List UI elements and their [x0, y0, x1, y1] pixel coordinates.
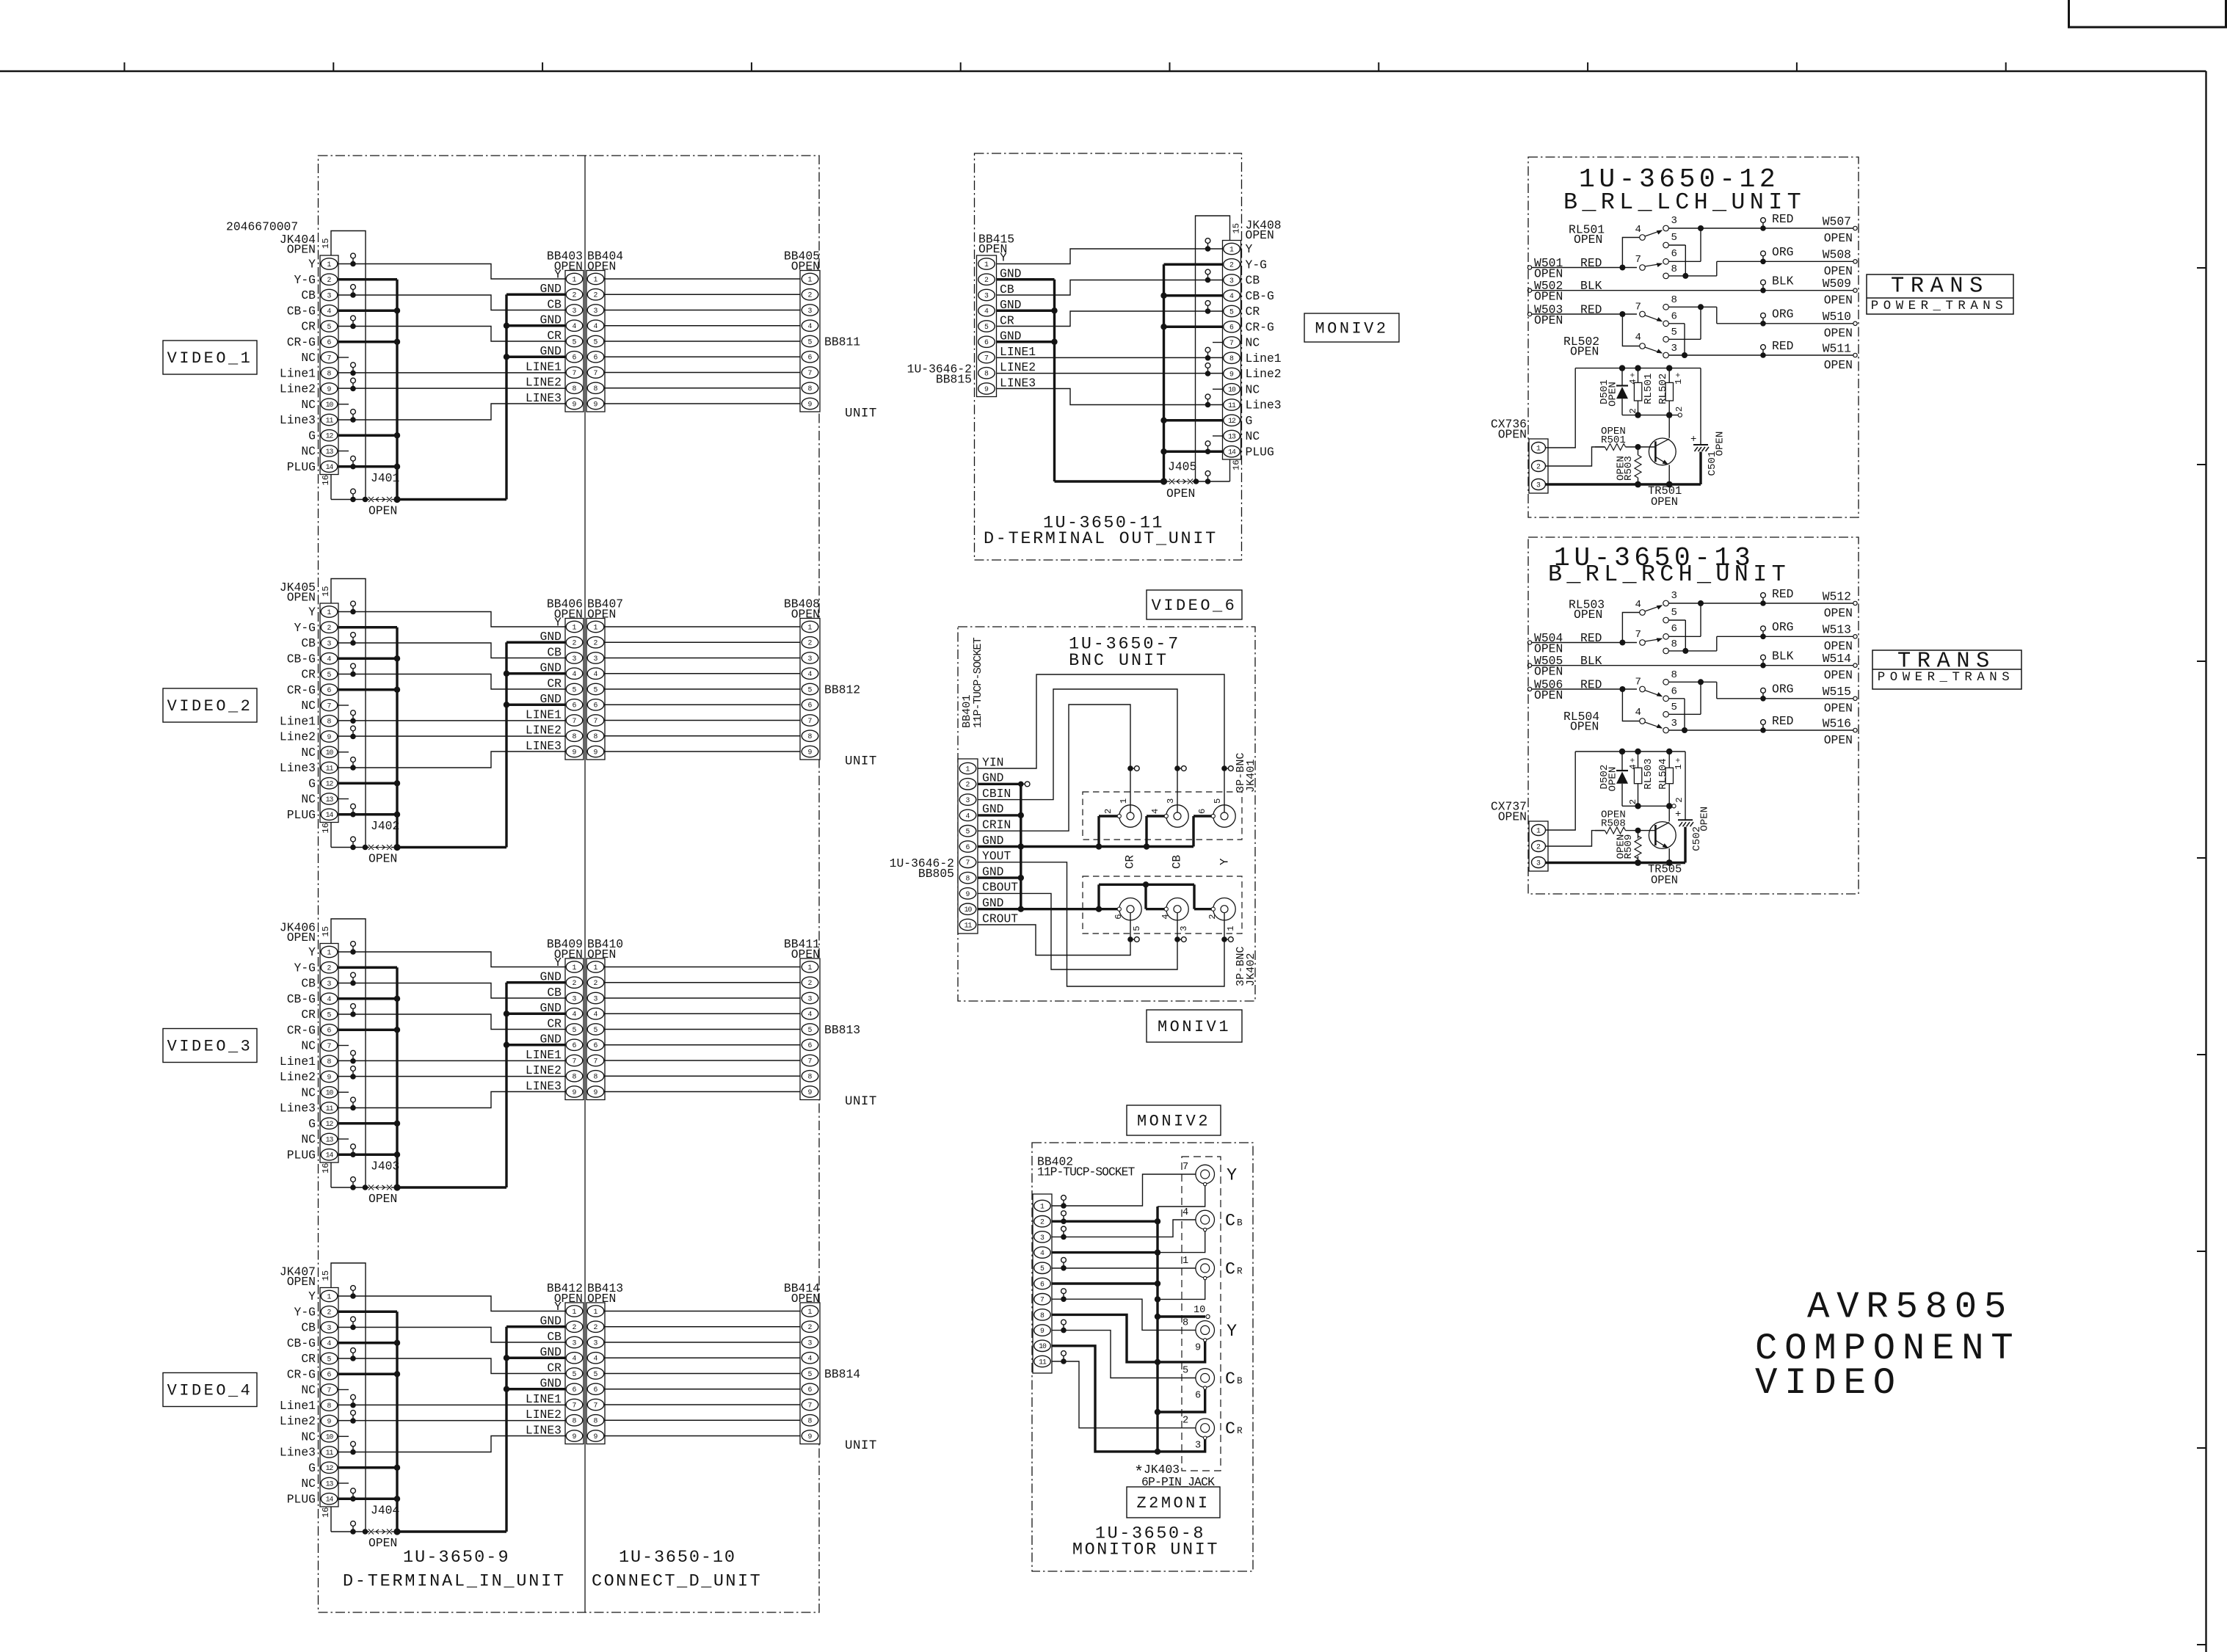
svg-text:VIDEO_2: VIDEO_2 [167, 697, 253, 716]
svg-text:8: 8 [808, 385, 813, 393]
unit outline 1U-3650-13 (dash-dot box) [1528, 537, 1859, 894]
svg-text:3: 3 [1671, 718, 1677, 729]
wire JK408 pin 13 NC stub [1213, 435, 1223, 437]
wire BB410 pin 5 to BB411 pin 5 [605, 1029, 800, 1030]
svg-text:2: 2 [1040, 1218, 1045, 1226]
svg-text:6: 6 [1197, 809, 1207, 814]
label UNIT destination [845, 1438, 877, 1453]
label drawing title AVR5805 [1807, 1287, 2013, 1329]
svg-text:RL502: RL502 [1657, 374, 1669, 404]
wire CB net JK404 pin 3 to BB403 pin 3 [338, 285, 565, 310]
wire jack CR1 shield to bus [1158, 1279, 1205, 1299]
connector BB411 (ribbon header 9P) [784, 937, 820, 1100]
svg-text:8: 8 [573, 1417, 577, 1425]
node Z2MONI [1127, 1487, 1220, 1518]
svg-text:Line2: Line2 [1246, 367, 1282, 381]
title block box top right [2069, 0, 2226, 27]
svg-text:2: 2 [573, 1323, 577, 1331]
svg-text:OPEN: OPEN [1574, 233, 1602, 247]
svg-text:POWER_TRANS: POWER_TRANS [1871, 299, 2008, 313]
svg-text:LINE1: LINE1 [526, 707, 562, 721]
svg-text:7: 7 [594, 1057, 598, 1065]
svg-text:5: 5 [573, 1370, 577, 1378]
svg-text:7: 7 [327, 354, 332, 362]
wire RL501 pin 5 to pin 8 [1668, 245, 1685, 276]
wire W515 output from RL504 pin 8 [1668, 679, 1857, 715]
RCA jack JK403 pin 1 (CR) [1182, 1256, 1243, 1280]
svg-text:ORG: ORG [1772, 683, 1793, 696]
svg-text:Y-G: Y-G [294, 1305, 316, 1319]
wire BB404 pin 1 to BB405 pin 1 [605, 278, 800, 280]
relay coil RL503 pins 4/2 [1628, 752, 1654, 806]
svg-text:PLUG: PLUG [1246, 445, 1274, 459]
svg-text:3: 3 [327, 639, 332, 647]
wire RL504 pin 5 to pin 8 [1668, 682, 1701, 714]
wire JK406 pin 13 NC stub [338, 1138, 349, 1140]
svg-text:7: 7 [594, 717, 598, 725]
svg-text:3: 3 [984, 291, 989, 299]
unit outline 1U-3650-7 BNC UNIT (dash-dot box) [958, 627, 1255, 1001]
test point BB402 pin 7 [1061, 1289, 1067, 1302]
svg-text:MONIV2: MONIV2 [1137, 1113, 1210, 1131]
svg-text:4: 4 [573, 322, 577, 330]
wire BB410 pin 6 to BB411 pin 6 [605, 1044, 800, 1046]
connector BB413 (board-to-board 9P) [586, 1281, 623, 1444]
wire JK404 pin 7 NC stub [338, 357, 349, 358]
svg-text:4: 4 [573, 1011, 577, 1019]
svg-text:14: 14 [1228, 448, 1236, 456]
svg-text:OPEN: OPEN [1824, 733, 1853, 747]
svg-text:BB814: BB814 [824, 1367, 860, 1381]
svg-text:OPEN: OPEN [1824, 639, 1853, 653]
svg-text:4: 4 [808, 1355, 813, 1363]
svg-text:CR: CR [1246, 305, 1260, 319]
unit outline 1U-3650-8 MONITOR UNIT (dash-dot box) [1032, 1143, 1253, 1571]
svg-text:6: 6 [1229, 324, 1234, 332]
svg-text:4: 4 [808, 670, 813, 678]
svg-text:3: 3 [1671, 590, 1677, 602]
wire BB413 pin 8 to BB414 pin 8 [605, 1419, 800, 1421]
label ribbon cable BB814 [824, 1367, 860, 1381]
svg-text:B: B [1237, 1218, 1243, 1229]
svg-text:3: 3 [573, 655, 577, 663]
wire ground bus JK406 pins 2/4/6/12/14 [338, 967, 506, 1190]
svg-text:CB: CB [547, 986, 562, 1000]
svg-text:7: 7 [327, 702, 332, 710]
svg-text:W516: W516 [1823, 716, 1851, 730]
svg-text:VIDEO: VIDEO [1755, 1363, 1903, 1405]
svg-text:UNIT: UNIT [845, 407, 877, 421]
connector BB415 (ribbon header 9P) [977, 232, 1036, 396]
svg-text:1: 1 [1182, 1256, 1188, 1267]
label CR (rotated) [1124, 854, 1137, 869]
svg-text:3: 3 [594, 307, 598, 315]
svg-text:CR: CR [301, 1008, 316, 1022]
svg-text:CR: CR [547, 1016, 562, 1030]
svg-text:+: + [1675, 809, 1681, 820]
wire BB413 pin 5 to BB414 pin 5 [605, 1373, 800, 1375]
svg-text:VIDEO_1: VIDEO_1 [167, 349, 253, 368]
svg-text:G: G [308, 776, 316, 790]
wire ground bus BB406 pins 2/4/6 [504, 642, 565, 847]
svg-text:3: 3 [573, 307, 577, 315]
svg-text:G: G [1246, 414, 1253, 428]
svg-text:B_RL_RCH_UNIT: B_RL_RCH_UNIT [1548, 561, 1790, 588]
node VIDEO_6 [1147, 590, 1242, 619]
svg-text:8: 8 [327, 1402, 332, 1410]
svg-text:2: 2 [1674, 797, 1685, 802]
svg-text:7: 7 [594, 369, 598, 377]
svg-text:VIDEO_4: VIDEO_4 [167, 1382, 253, 1400]
svg-text:CB-G: CB-G [287, 304, 316, 318]
svg-text:16: 16 [321, 475, 331, 486]
svg-text:W508: W508 [1823, 248, 1851, 262]
wire BB402 pin 11 to jack CR2 [1052, 1361, 1201, 1430]
svg-text:Line3: Line3 [280, 761, 316, 775]
svg-text:5: 5 [1213, 798, 1223, 804]
svg-text:VIDEO_3: VIDEO_3 [167, 1038, 253, 1056]
svg-text:CB-G: CB-G [1246, 289, 1274, 303]
svg-text:8: 8 [966, 875, 970, 883]
node VIDEO_2 [163, 688, 257, 722]
relay RL504 contacts (OPEN) [1563, 669, 1677, 734]
RCA jack JK403 pin 4 (CB) [1182, 1207, 1243, 1231]
svg-text:11: 11 [1039, 1358, 1047, 1366]
svg-text:NC: NC [301, 1085, 316, 1099]
svg-text:Line3: Line3 [1246, 399, 1282, 412]
label Y (rotated) [1218, 858, 1232, 865]
svg-text:BB815: BB815 [936, 372, 972, 386]
wire LINE2 net JK407 pin 9 to BB412 pin 8 [338, 1411, 565, 1424]
wire jack Y2 shield to bus [1158, 1341, 1205, 1362]
label unit title 1U-3650-10 [619, 1548, 736, 1568]
connector BB414 (ribbon header 9P) [784, 1281, 820, 1444]
svg-text:LINE3: LINE3 [526, 391, 562, 405]
unit outline 1U-3650-11 (dash-dot box) [975, 153, 1242, 560]
svg-text:Line1: Line1 [280, 714, 316, 728]
svg-text:7: 7 [573, 1057, 577, 1065]
svg-text:6: 6 [327, 686, 332, 694]
svg-text:8: 8 [573, 1073, 577, 1081]
svg-text:10: 10 [1228, 386, 1236, 394]
wire CX737 pin 1 to coil rail [1546, 752, 1576, 830]
svg-text:13: 13 [326, 1480, 334, 1488]
svg-text:1: 1 [1536, 444, 1541, 452]
svg-text:NC: NC [301, 746, 316, 760]
svg-text:4: 4 [1635, 332, 1641, 343]
svg-text:CR: CR [301, 668, 316, 682]
jumper J403 (OPEN) on shell ground [331, 1159, 399, 1206]
svg-text:+: + [1674, 757, 1683, 763]
svg-text:D-TERMINAL OUT_UNIT: D-TERMINAL OUT_UNIT [984, 529, 1218, 549]
svg-text:5: 5 [573, 338, 577, 346]
svg-text:4: 4 [573, 670, 577, 678]
svg-text:LINE2: LINE2 [526, 376, 562, 390]
svg-text:NC: NC [301, 1132, 316, 1146]
wire RL503 pin 5 to pin 8 [1668, 620, 1685, 651]
svg-text:9: 9 [594, 748, 598, 756]
capacitor C501 (OPEN, electrolytic) [1690, 368, 1726, 484]
svg-text:Line3: Line3 [280, 1102, 316, 1116]
svg-text:1: 1 [808, 1308, 813, 1316]
wire CR net JK406 pin 5 to BB409 pin 5 [338, 1004, 565, 1030]
svg-text:4: 4 [573, 1355, 577, 1363]
svg-text:6: 6 [594, 1041, 598, 1049]
svg-text:4: 4 [1635, 224, 1641, 236]
wire LINE3 net JK406 pin 11 to BB409 pin 9 [338, 1092, 565, 1111]
svg-text:8: 8 [594, 1073, 598, 1081]
BNC jack JK402 contact 3/4 (CB) [1160, 898, 1189, 931]
svg-text:9: 9 [327, 1417, 332, 1425]
svg-text:1: 1 [1674, 379, 1684, 384]
svg-text:4: 4 [1635, 707, 1641, 718]
svg-text:NC: NC [1246, 429, 1260, 443]
svg-text:OPEN: OPEN [1824, 606, 1853, 620]
svg-text:5: 5 [327, 323, 332, 331]
node VIDEO_1 [163, 341, 257, 374]
svg-text:4: 4 [1635, 599, 1641, 611]
svg-text:9: 9 [808, 1433, 813, 1441]
svg-text:RED: RED [1772, 714, 1793, 728]
svg-text:W515: W515 [1823, 685, 1851, 699]
wire W504 input [1527, 631, 1637, 656]
svg-text:2: 2 [1103, 809, 1113, 814]
wire Y net JK407 pin 1 to BB412 pin 1 [338, 1286, 565, 1311]
svg-text:5: 5 [1671, 702, 1677, 713]
wire RL502 pin 6 to pin 3 junction [1668, 324, 1685, 355]
connector BB402 (11P-TUCP-SOCKET) [1033, 1154, 1135, 1373]
svg-text:5: 5 [327, 1355, 332, 1363]
connector JK404 (D-terminal 14P) [226, 219, 338, 485]
svg-text:7: 7 [1040, 1296, 1045, 1304]
svg-text:2: 2 [984, 276, 989, 284]
connector BB404 (board-to-board 9P) [586, 249, 623, 412]
wire BB413 pin 6 to BB414 pin 6 [605, 1389, 800, 1390]
svg-text:4: 4 [808, 322, 813, 330]
svg-text:Y-G: Y-G [1246, 258, 1267, 272]
svg-text:9: 9 [1229, 370, 1234, 378]
svg-text:OPEN: OPEN [1534, 290, 1563, 304]
wire Y net JK404 pin 1 to BB403 pin 1 [338, 253, 565, 279]
wire CX736 pin 3 ground rail [1546, 483, 1701, 485]
svg-text:1: 1 [1040, 1202, 1045, 1210]
svg-text:JK402: JK402 [1244, 953, 1257, 986]
svg-text:3: 3 [573, 1339, 577, 1347]
svg-text:1: 1 [1674, 764, 1684, 769]
svg-text:CR-G: CR-G [287, 1023, 316, 1037]
test point JK406 pin 14 [350, 1144, 356, 1157]
svg-text:ORG: ORG [1772, 620, 1793, 634]
svg-text:LINE2: LINE2 [526, 1408, 562, 1422]
svg-text:6: 6 [594, 1386, 598, 1394]
svg-text:2: 2 [808, 639, 813, 647]
svg-text:4: 4 [1040, 1249, 1045, 1257]
svg-text:9: 9 [327, 1073, 332, 1081]
svg-text:7: 7 [1635, 629, 1641, 641]
svg-text:5: 5 [1671, 232, 1677, 244]
wire Y net JK406 pin 1 to BB409 pin 1 [338, 942, 565, 967]
wire BB404 pin 6 to BB405 pin 6 [605, 356, 800, 357]
svg-text:R501: R501 [1601, 434, 1626, 446]
svg-text:CR: CR [301, 320, 316, 334]
svg-text:5: 5 [327, 671, 332, 679]
svg-text:Line2: Line2 [280, 1414, 316, 1428]
svg-text:5: 5 [808, 685, 813, 694]
svg-text:CB: CB [1246, 274, 1260, 288]
svg-text:CR-G: CR-G [287, 1367, 316, 1381]
svg-text:5: 5 [594, 1026, 598, 1034]
svg-text:RED: RED [1580, 631, 1602, 645]
svg-text:3: 3 [594, 1339, 598, 1347]
svg-text:POWER_TRANS: POWER_TRANS [1878, 670, 2014, 685]
svg-text:MONIV1: MONIV1 [1158, 1018, 1231, 1036]
relay RL502 contacts (OPEN) [1563, 294, 1677, 359]
svg-text:G: G [308, 429, 316, 443]
wire JK405 pin 10 NC stub [338, 752, 349, 753]
svg-text:1: 1 [573, 623, 577, 631]
svg-text:BB813: BB813 [824, 1023, 860, 1037]
svg-text:3: 3 [594, 655, 598, 663]
svg-text:2046670007: 2046670007 [226, 219, 298, 233]
svg-text:NC: NC [301, 793, 316, 807]
connector BB405 (ribbon header 9P) [784, 249, 820, 412]
svg-text:9: 9 [1195, 1342, 1201, 1353]
svg-text:CBIN: CBIN [982, 787, 1011, 801]
svg-text:6: 6 [808, 1041, 813, 1049]
label unit title 1U-3650-13 [1554, 543, 1754, 573]
svg-text:CB: CB [547, 645, 562, 659]
wire BB407 pin 1 to BB408 pin 1 [605, 626, 800, 627]
svg-text:9: 9 [808, 748, 813, 756]
svg-text:+: + [1630, 372, 1638, 377]
diode D501 (OPEN) [1599, 368, 1628, 415]
RCA jack JK403 pin 2 (CR) [1182, 1416, 1243, 1452]
svg-text:16: 16 [321, 1507, 331, 1518]
svg-text:D-TERMINAL_IN_UNIT: D-TERMINAL_IN_UNIT [343, 1572, 566, 1592]
svg-text:1: 1 [573, 1308, 577, 1316]
svg-text:ORG: ORG [1772, 245, 1793, 259]
svg-text:12: 12 [326, 1464, 334, 1472]
connector BB406 (board-to-board 9P) [526, 597, 584, 760]
svg-text:9: 9 [573, 1088, 577, 1096]
svg-text:Y: Y [1227, 1322, 1237, 1342]
svg-text:OPEN: OPEN [1651, 874, 1678, 887]
svg-text:Y: Y [308, 1289, 316, 1303]
wire Y net JK405 pin 1 to BB406 pin 1 [338, 601, 565, 627]
svg-text:CB: CB [547, 297, 562, 311]
wire JK408 pin 10 NC stub [1213, 388, 1223, 390]
svg-text:OPEN: OPEN [1824, 702, 1853, 716]
svg-text:BLK: BLK [1580, 654, 1602, 668]
svg-text:4: 4 [984, 308, 989, 316]
resistor R508 (OPEN) base feed [1595, 809, 1655, 834]
svg-text:Y: Y [554, 956, 562, 969]
svg-text:6: 6 [1671, 623, 1677, 635]
transistor TR501 (OPEN) [1648, 438, 1682, 509]
svg-text:15: 15 [321, 586, 331, 597]
wire RL504 pin 6 to pin 3 junction [1668, 699, 1685, 730]
wire JK403 pin 10 stub (open) [1158, 1305, 1210, 1319]
wire BB407 pin 9 to BB408 pin 9 [605, 751, 800, 752]
label ribbon cable BB811 [824, 335, 860, 349]
svg-text:11: 11 [964, 921, 973, 929]
svg-text:RED: RED [1772, 212, 1793, 226]
svg-text:6: 6 [594, 354, 598, 362]
unit outline 1U-3650-12 (dash-dot box) [1528, 157, 1859, 517]
svg-text:OPEN: OPEN [287, 242, 316, 256]
svg-text:UNIT: UNIT [845, 754, 877, 769]
wire W508 output from RL501 pin 8 [1668, 245, 1857, 279]
label 1U-3646-2 / BB805 ribbon source [890, 856, 954, 881]
svg-text:11P-TUCP-SOCKET: 11P-TUCP-SOCKET [1037, 1165, 1135, 1179]
wire BB402 pin 5 to jack CR1 [1052, 1267, 1201, 1270]
svg-text:2: 2 [327, 964, 332, 972]
connector BB407 (board-to-board 9P) [586, 597, 623, 760]
svg-text:J404: J404 [371, 1503, 399, 1517]
svg-text:CR: CR [301, 1352, 316, 1366]
svg-text:LINE3: LINE3 [526, 1423, 562, 1437]
svg-text:3: 3 [1040, 1234, 1045, 1242]
svg-text:1: 1 [1229, 245, 1234, 253]
svg-text:11: 11 [326, 416, 334, 424]
svg-text:6: 6 [573, 1386, 577, 1394]
svg-text:CR-G: CR-G [287, 335, 316, 349]
connector BB412 (board-to-board 9P) [526, 1281, 584, 1444]
svg-text:4: 4 [327, 308, 332, 316]
wire CR net JK405 pin 5 to BB406 pin 5 [338, 663, 565, 689]
test point BB402 pin 3 [1061, 1226, 1067, 1240]
svg-text:5: 5 [594, 338, 598, 346]
RCA jack JK403 pin 7 (Y) [1182, 1162, 1237, 1186]
svg-text:Y-G: Y-G [294, 273, 316, 287]
wire CR net JK404 pin 5 to BB403 pin 5 [338, 316, 565, 341]
svg-text:7: 7 [594, 1401, 598, 1409]
wire JK404 pin 13 NC stub [338, 451, 349, 452]
wire BB402 pin 8 to ground bus [1052, 1314, 1158, 1362]
svg-text:OPEN: OPEN [368, 1536, 397, 1550]
svg-text:OPEN: OPEN [1651, 495, 1678, 509]
wire BB413 pin 9 to BB414 pin 9 [605, 1436, 800, 1437]
svg-text:Line2: Line2 [280, 730, 316, 744]
svg-text:8: 8 [1671, 294, 1677, 306]
capacitor C502 (OPEN, electrolytic) [1675, 752, 1710, 863]
svg-text:7: 7 [1229, 339, 1234, 347]
svg-text:7: 7 [573, 717, 577, 725]
wire ground bus BB412 pins 2/4/6 [504, 1327, 565, 1532]
svg-text:CR: CR [1000, 313, 1014, 327]
wire BB407 pin 4 to BB408 pin 4 [605, 673, 800, 674]
wire CX736 pin 1 to coil rail [1546, 368, 1576, 448]
wire W505 input/output (BLK) [1527, 649, 1857, 683]
svg-text:6: 6 [573, 354, 577, 362]
svg-text:PLUG: PLUG [287, 1492, 316, 1506]
svg-text:+: + [1674, 372, 1683, 377]
svg-text:8: 8 [808, 1417, 813, 1425]
wire W503 input [1527, 302, 1637, 327]
svg-text:2: 2 [1182, 1416, 1188, 1427]
svg-text:2: 2 [1207, 914, 1218, 919]
wire JK407 pin 13 NC stub [338, 1482, 349, 1484]
svg-text:C: C [1225, 1419, 1235, 1439]
wire JK406 shell pins 15/16 [331, 919, 366, 1187]
wire JK407 pin 7 NC stub [338, 1389, 349, 1391]
wire JK406 pin 7 NC stub [338, 1045, 349, 1047]
svg-text:9: 9 [594, 1088, 598, 1096]
wire CRIN BB401 pin 5 to BNC [978, 705, 1139, 831]
connector BB403 (board-to-board 9P) [526, 249, 584, 412]
svg-text:PLUG: PLUG [287, 460, 316, 474]
wire ground path to JK401 shields [1021, 816, 1212, 850]
